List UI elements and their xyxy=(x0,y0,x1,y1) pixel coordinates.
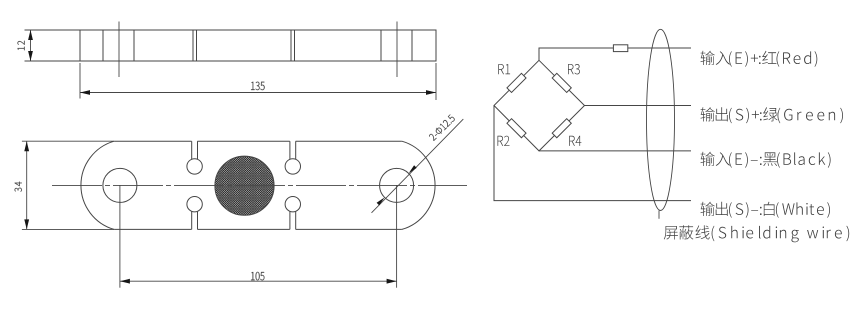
dimension 135 extension lines xyxy=(80,63,436,100)
mounting hole left xyxy=(103,168,137,202)
cable shield ellipse xyxy=(647,29,675,210)
wire right node to S+ xyxy=(585,105,692,107)
label R4 xyxy=(569,136,581,146)
keyhole slot bottom-right xyxy=(285,197,300,212)
compensation resistor xyxy=(613,45,627,52)
dimension text 135 xyxy=(251,82,265,90)
resistor R4 xyxy=(552,119,571,138)
keyhole slot bottom-left xyxy=(187,197,202,212)
dimension 34 line xyxy=(26,141,28,229)
dimension 34 extension lines xyxy=(22,141,114,229)
dimension 12 extension lines xyxy=(25,30,81,61)
side view segment lines xyxy=(103,30,412,61)
label R3 xyxy=(568,64,580,74)
keyhole slot top-left xyxy=(187,159,202,174)
label input E+ red xyxy=(701,51,818,67)
extension line right hole center xyxy=(396,185,398,287)
label output S- white xyxy=(701,202,831,218)
wire bottom node to E- xyxy=(539,150,691,152)
label input E- black xyxy=(701,152,831,168)
side view centerline right xyxy=(396,22,398,78)
label R2 xyxy=(498,136,510,146)
wire top node to E+ xyxy=(539,48,691,60)
leader line 2-phi12.5 xyxy=(372,119,464,213)
mounting hole right xyxy=(380,168,414,202)
dimension text 105 xyxy=(251,272,264,280)
horizontal centerline xyxy=(52,184,467,186)
keyhole slot top-right xyxy=(285,159,300,174)
label output S+ green xyxy=(701,107,844,123)
dimension 135 line xyxy=(80,92,436,94)
side view body outline xyxy=(80,30,436,61)
label R1 xyxy=(498,64,510,74)
dimension text 34 xyxy=(15,182,22,192)
dimension text 12 xyxy=(18,41,25,50)
label shielding wire xyxy=(664,225,849,242)
dimension 12 line xyxy=(30,30,32,61)
plan view outline (stadium with slot gaps) xyxy=(114,140,402,142)
shield wire tick xyxy=(658,211,660,219)
bridge diamond wires xyxy=(494,60,585,151)
resistor R3 xyxy=(552,73,571,92)
dimension 105 line xyxy=(120,280,397,282)
leader text 2-phi12.5 xyxy=(428,114,455,141)
wire left node to S- xyxy=(494,106,691,201)
extension line left hole center xyxy=(119,185,121,287)
side view centerline left xyxy=(118,22,120,78)
resistor R2 xyxy=(507,119,526,138)
resistor R1 xyxy=(507,73,526,92)
